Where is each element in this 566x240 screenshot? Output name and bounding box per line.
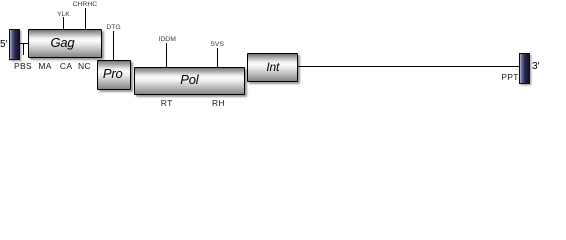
3' end label	[532, 61, 539, 72]
gene Pol box	[134, 67, 245, 95]
PBS tick	[23, 44, 24, 56]
CHRHC label	[73, 1, 98, 8]
YLK label	[57, 11, 70, 18]
wire from 5' box to Gag	[20, 43, 28, 44]
NC label	[78, 61, 91, 71]
IDDM label	[159, 36, 176, 43]
YLK tick	[63, 17, 64, 30]
DTG tick	[113, 31, 114, 61]
PPT label	[501, 72, 518, 82]
5' terminal repeat box	[9, 29, 20, 60]
PPT box (3' terminal)	[519, 53, 530, 85]
PBS label	[14, 61, 32, 71]
DTG label	[106, 24, 120, 31]
long wire from Int to PPT	[298, 66, 519, 68]
RH label	[212, 98, 225, 108]
SVS tick	[217, 48, 218, 67]
CHRHC tick	[85, 8, 86, 30]
gene Int box	[247, 53, 298, 82]
RT label	[161, 98, 173, 108]
SVS label	[210, 41, 224, 48]
5' end label	[0, 39, 7, 50]
CA label	[60, 61, 72, 71]
gene Gag box	[28, 29, 103, 58]
gene Pro box	[97, 60, 131, 90]
IDDM tick	[166, 43, 167, 67]
MA label	[38, 61, 51, 71]
